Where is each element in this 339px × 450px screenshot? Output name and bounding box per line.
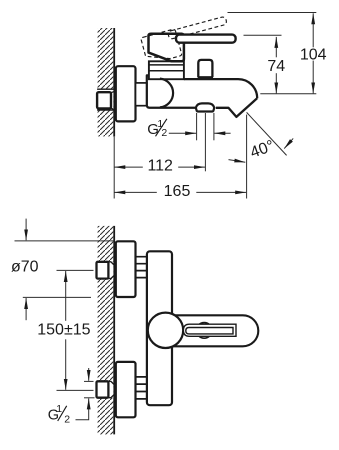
wall hatch xyxy=(98,226,114,435)
cartridge dome arc xyxy=(160,79,173,108)
svg-text:165: 165 xyxy=(164,183,191,200)
svg-text:150±15: 150±15 xyxy=(37,321,90,338)
G1/2 label top view xyxy=(147,118,167,139)
dimension 104 xyxy=(228,12,317,14)
40 degree spout angle xyxy=(247,112,287,155)
G1/2 label bottom view xyxy=(84,380,94,382)
wall face line xyxy=(113,28,115,136)
svg-text:2: 2 xyxy=(161,127,167,139)
lever inner slot xyxy=(186,328,233,334)
spout top edge and curved end xyxy=(184,79,257,98)
svg-text:74: 74 xyxy=(267,58,285,75)
lever handle (front) xyxy=(170,315,258,346)
svg-text:1: 1 xyxy=(56,403,62,415)
shower outlet bump G1/2 xyxy=(196,103,215,111)
dimension dia 70 xyxy=(15,240,115,242)
dimension 74 xyxy=(244,34,282,36)
cartridge cap circle xyxy=(148,313,183,348)
wall extension line down xyxy=(113,136,115,198)
connector S-union through wall (side view) xyxy=(97,89,116,110)
handle base (solid) xyxy=(148,34,183,62)
diverter knob xyxy=(198,60,212,77)
bottom connector G1/2 xyxy=(97,381,116,397)
dimension 165 xyxy=(246,115,248,199)
top nipple threads xyxy=(136,257,147,278)
bottom nipple threads xyxy=(136,377,147,399)
svg-text:104: 104 xyxy=(300,46,327,63)
escutcheon (side view) xyxy=(116,66,136,121)
outlet centre extension xyxy=(204,113,206,171)
wall face line xyxy=(113,226,115,435)
top connector G1/2 xyxy=(97,262,116,279)
spout angled end face xyxy=(216,98,257,117)
svg-text:2: 2 xyxy=(64,414,70,426)
body left and bottom edge xyxy=(147,75,196,107)
indicator dot behind slot xyxy=(196,323,212,339)
faucet body (front) xyxy=(147,251,172,405)
svg-text:112: 112 xyxy=(147,158,173,175)
bottom escutcheon xyxy=(116,362,136,417)
dimension 150 +/- 15 xyxy=(57,269,94,271)
handle lever bar (solid) xyxy=(176,35,236,43)
top escutcheon xyxy=(116,241,136,297)
wall hatch xyxy=(98,28,114,136)
lever outer slot xyxy=(183,324,236,336)
cartridge housing under handle xyxy=(149,61,184,79)
svg-text:ø70: ø70 xyxy=(11,259,39,276)
dimension 112 xyxy=(114,166,143,168)
handle raised position (dashed) xyxy=(141,15,232,64)
nipple escutcheon to body xyxy=(136,83,147,106)
